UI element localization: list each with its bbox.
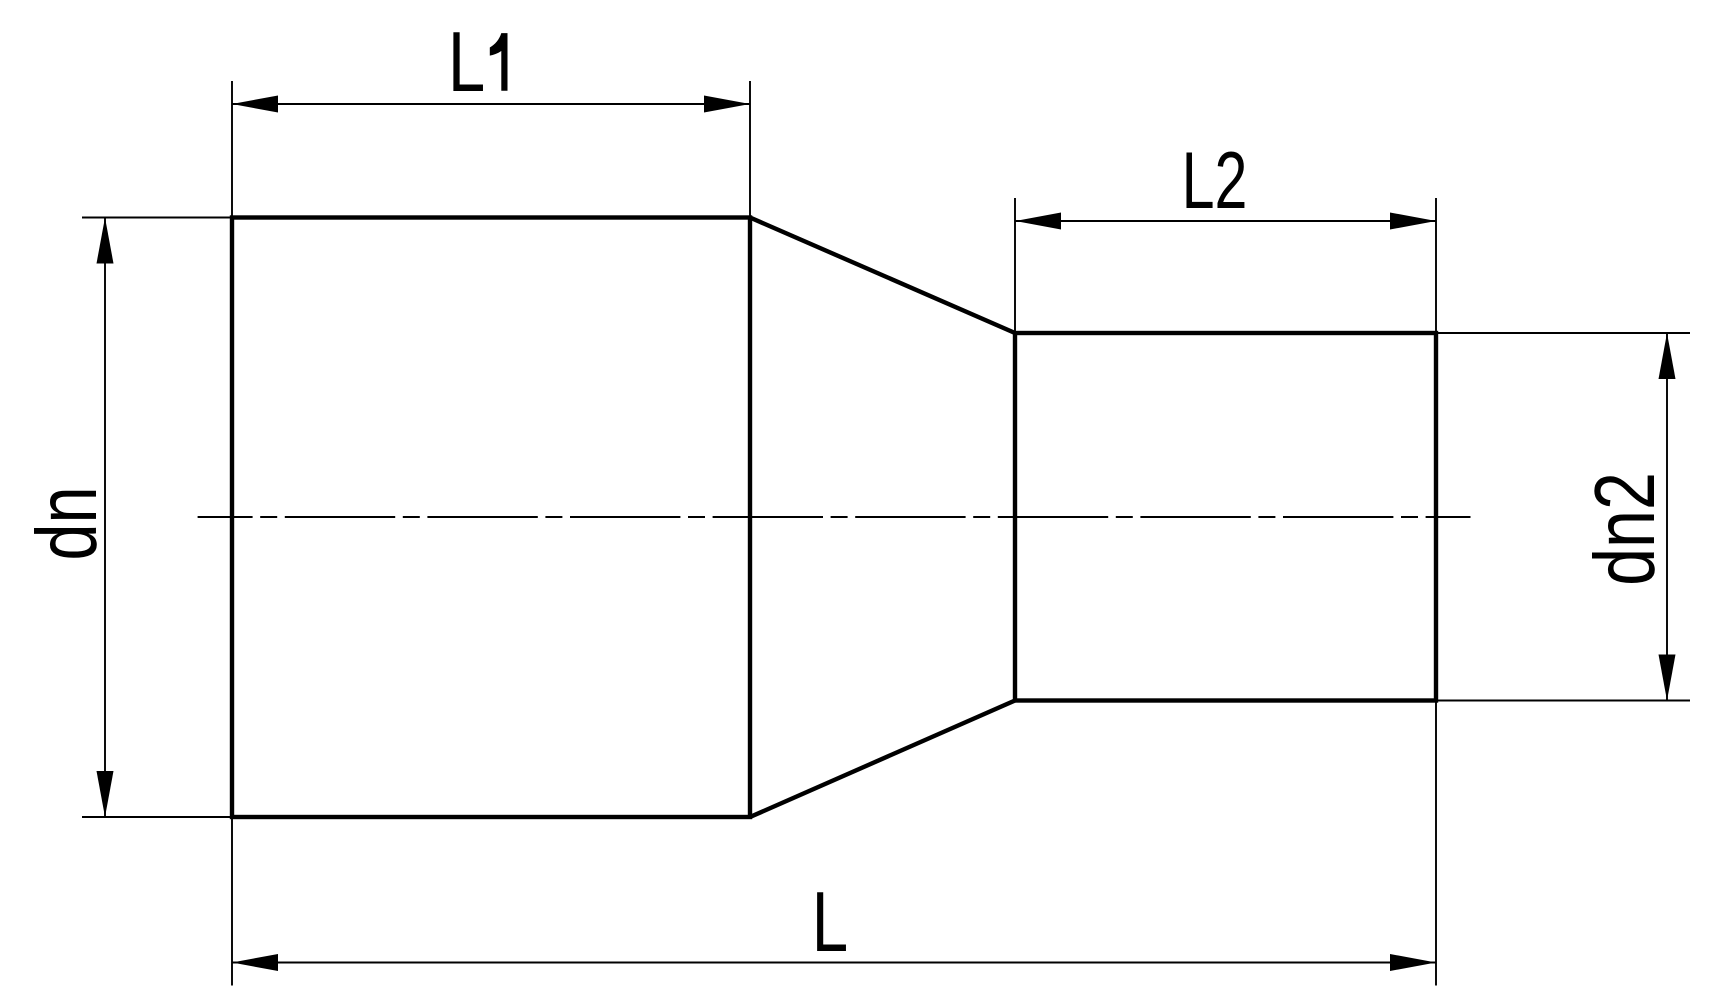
dn2 arrow bottom <box>1659 655 1676 701</box>
L dimension line <box>232 962 1436 964</box>
reducer body outline: small pipe section <box>1015 333 1436 701</box>
L1 arrow right <box>704 96 750 113</box>
L1 arrow left <box>232 96 278 113</box>
dn2 arrow top <box>1659 333 1676 379</box>
L2 extension left <box>1014 198 1016 333</box>
taper cone top line <box>750 218 1015 334</box>
dn2 extension bottom <box>1436 700 1690 702</box>
dn2 dimension line <box>1666 333 1668 701</box>
svg-text:dn2: dn2 <box>1578 472 1673 586</box>
dn extension top <box>82 217 232 219</box>
L2 dimension line <box>1015 220 1436 222</box>
svg-text:L2: L2 <box>1182 135 1248 225</box>
dn extension bottom <box>82 816 232 818</box>
L2 arrow left <box>1015 213 1061 230</box>
dn dimension line <box>104 218 106 818</box>
L arrow left <box>232 954 278 971</box>
svg-text:L: L <box>448 16 485 110</box>
taper cone bottom line <box>750 701 1015 818</box>
L2 arrow right <box>1390 213 1436 230</box>
L2 extension right <box>1435 198 1437 333</box>
centerline axis <box>198 516 1471 518</box>
svg-text:dn: dn <box>20 486 115 560</box>
L1 extension right <box>749 81 751 218</box>
L extension right <box>1435 701 1437 986</box>
L1 extension left <box>231 81 233 218</box>
dn arrow top <box>97 218 114 264</box>
dn2 extension top <box>1436 332 1690 334</box>
svg-text:L: L <box>812 875 848 970</box>
dn arrow bottom <box>97 771 114 817</box>
reducer body outline: large pipe section <box>232 218 750 818</box>
L1 dimension line <box>232 103 750 105</box>
L extension left <box>231 817 233 986</box>
L arrow right <box>1390 954 1436 971</box>
label L1: digit 1 (custom CAD glyph, no foot serif) <box>490 33 508 91</box>
